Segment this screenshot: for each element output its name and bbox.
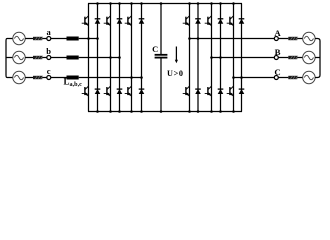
rectifier branch 2 rail dots <box>96 2 99 113</box>
transistor T4' lower <box>183 86 190 96</box>
diode D3 upper <box>139 19 145 24</box>
diode D1' upper <box>195 19 201 24</box>
transistor T2 upper <box>104 16 111 26</box>
grid impedance phase a <box>33 37 43 41</box>
wire source-b to impedance <box>25 57 33 59</box>
inverter branch wire 5 <box>233 4 235 112</box>
grid impedance phase b <box>33 56 43 60</box>
label b <box>46 46 51 56</box>
node a terminal <box>47 37 51 41</box>
AC source grid phase b <box>13 51 25 63</box>
inductor Lc <box>67 76 79 80</box>
rectifier branch wire 6 <box>141 4 143 112</box>
label a <box>46 27 51 37</box>
AC source grid phase a <box>13 32 25 44</box>
transistor T3 upper <box>125 16 132 26</box>
AC source grid phase c <box>13 71 25 83</box>
rectifier branch 3 rail dots <box>109 2 112 113</box>
grid impedance phase c <box>33 76 43 80</box>
voltage arrow U <box>175 47 178 64</box>
wire phase b to converter leg 2 <box>79 57 120 59</box>
rectifier branch wire 3 <box>110 4 112 112</box>
junction dots phase b <box>109 56 121 59</box>
right neutral bus <box>315 39 320 78</box>
transistor T3' upper <box>227 16 234 26</box>
inverter branch 5 rail dots <box>232 2 235 113</box>
inverter branch wire 1 <box>189 4 191 112</box>
diode D5 lower <box>117 89 123 94</box>
diode D1 upper <box>95 19 101 24</box>
transistor T1 upper <box>82 16 89 26</box>
inverter branch wire 2 <box>197 4 199 112</box>
label B <box>275 47 281 57</box>
inverter branch 2 rail dots <box>197 2 200 113</box>
wire impedance to source B <box>297 57 302 59</box>
rectifier branch wire 1 <box>88 4 90 112</box>
diode D2' upper <box>218 19 224 24</box>
wire phase a to converter leg 1 <box>79 38 98 40</box>
transistor T5' lower <box>205 86 212 96</box>
transistor T6' lower <box>227 86 234 96</box>
node c terminal <box>47 76 51 80</box>
inductor Lb <box>67 56 79 60</box>
wire node C to machine impedance <box>278 77 288 79</box>
wire source-a to impedance <box>25 38 33 40</box>
diode D3' upper <box>239 19 245 24</box>
negative DC rail <box>88 111 242 113</box>
label c <box>47 66 51 76</box>
AC source machine phase A <box>303 32 315 44</box>
rectifier branch wire 5 <box>131 4 133 112</box>
capacitor rail dots <box>160 2 163 113</box>
wire converter leg to node A <box>190 38 275 40</box>
svg-text:B: B <box>275 47 281 57</box>
transistor T5 lower <box>104 86 111 96</box>
diode D6' lower <box>239 89 245 94</box>
diode D6 lower <box>139 89 145 94</box>
inverter branch wire 3 <box>211 4 213 112</box>
diode D4' lower <box>195 89 201 94</box>
node B terminal <box>274 56 278 60</box>
label C <box>152 44 158 54</box>
wire source-c to impedance <box>25 77 33 79</box>
svg-text:c: c <box>47 66 51 76</box>
inverter branch wire 4 <box>220 4 222 112</box>
inverter branch 4 rail dots <box>219 2 222 113</box>
wire impedance to node c <box>42 77 47 79</box>
positive DC rail <box>88 3 242 5</box>
wire node B to machine impedance <box>278 57 288 59</box>
junction dots phase B <box>210 56 222 59</box>
rectifier branch 5 rail dots <box>130 2 133 113</box>
AC source machine phase B <box>303 51 315 63</box>
machine impedance phase A <box>288 37 298 41</box>
AC source machine phase C <box>303 71 315 83</box>
inverter branch 1 rail dots <box>188 2 191 113</box>
transistor T1' upper <box>183 16 190 26</box>
svg-text:C: C <box>274 67 280 77</box>
junction dots phase C <box>232 76 243 79</box>
wire impedance to source A <box>297 38 302 40</box>
node b terminal <box>47 56 51 60</box>
label A <box>274 28 281 38</box>
wire node A to machine impedance <box>278 38 288 40</box>
machine impedance phase C <box>288 76 298 80</box>
label C <box>274 67 280 77</box>
svg-text:b: b <box>46 46 51 56</box>
wire node a to inductor <box>51 38 67 40</box>
svg-text:U > 0: U > 0 <box>167 69 183 78</box>
svg-text:A: A <box>274 28 281 38</box>
diode D4 lower <box>95 89 101 94</box>
node A terminal <box>274 37 278 41</box>
svg-text:a: a <box>46 27 51 37</box>
diode D5' lower <box>218 89 224 94</box>
rectifier branch wire 4 <box>119 4 121 112</box>
inverter branch wire 6 <box>241 4 243 112</box>
diode D2 upper <box>117 19 123 24</box>
label L_abc <box>64 77 83 89</box>
rectifier branch wire 2 <box>97 4 99 112</box>
wire impedance to node b <box>42 57 47 59</box>
rectifier branch 4 rail dots <box>118 2 121 113</box>
junction dots phase A <box>188 37 199 40</box>
wire converter leg to node C <box>234 77 275 79</box>
inductor La <box>67 37 79 41</box>
wire impedance to node a <box>42 38 47 40</box>
machine impedance phase B <box>288 56 298 60</box>
wire converter leg to node B <box>212 57 275 59</box>
wire node b to inductor <box>51 57 67 59</box>
capacitor C plates <box>155 55 168 58</box>
capacitor branch wire top <box>160 4 162 55</box>
wire impedance to source C <box>297 77 302 79</box>
node C terminal <box>274 76 278 80</box>
wire phase c to converter leg 3 <box>79 77 142 79</box>
left neutral bus <box>6 39 13 78</box>
capacitor branch wire bottom <box>160 58 162 112</box>
svg-text:C: C <box>152 44 158 54</box>
transistor T2' upper <box>205 16 212 26</box>
inverter branch 3 rail dots <box>210 2 213 113</box>
wire node c to inductor <box>51 77 67 79</box>
label U>0 <box>167 69 183 78</box>
transistor T6 lower <box>125 86 132 96</box>
transistor T4 lower <box>82 86 89 96</box>
junction dots phase a <box>87 37 99 40</box>
rectifier branch 6 rail dots <box>140 2 143 113</box>
junction dots phase c <box>130 76 143 79</box>
